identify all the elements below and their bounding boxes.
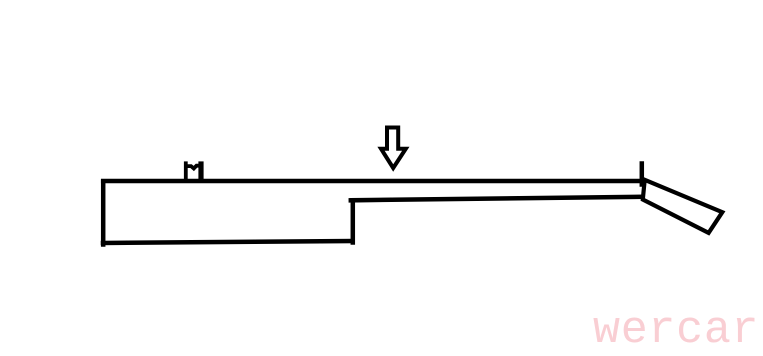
- right tick: [640, 164, 645, 185]
- bottom line of thin bar: [351, 197, 642, 201]
- flap parallelogram: [643, 180, 723, 233]
- step vertical: [351, 201, 356, 243]
- bottom of base block: [103, 241, 352, 243]
- node tab: [186, 163, 201, 180]
- watermark wercar: [593, 308, 759, 353]
- arrow (force): [381, 128, 406, 169]
- top line of beam: [103, 179, 644, 184]
- wire: [103, 164, 644, 245]
- left edge of base block: [101, 182, 106, 245]
